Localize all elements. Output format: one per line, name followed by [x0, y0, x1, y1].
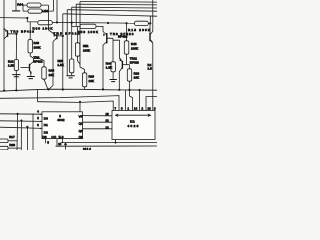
wire x21.4 drop: [20, 121, 22, 150]
svg-text:D3: D3: [44, 130, 48, 134]
resistor R39: [82, 73, 86, 87]
svg-text:R38: R38: [9, 143, 15, 147]
resistor R46: [124, 41, 129, 54]
svg-text:1.5K: 1.5K: [58, 63, 64, 67]
svg-text:100K: 100K: [131, 46, 138, 50]
svg-text:1.5: 1.5: [148, 66, 153, 70]
wire right y97: [146, 97, 157, 111]
wire B1 corner drop: [149, 16, 151, 23]
node R12 bottom: [15, 89, 17, 91]
svg-text:10K: 10K: [89, 79, 95, 83]
svg-text:CO: CO: [51, 135, 56, 139]
wire TR5 collector down: [49, 42, 53, 90]
wire IC1-IC2 q1: [83, 115, 113, 117]
node j62-90: [62, 88, 64, 90]
transistor TR12: [149, 33, 151, 41]
svg-text:Q3: Q3: [79, 129, 83, 133]
svg-text:R17: R17: [9, 135, 15, 139]
wire y142.5: [61, 141, 157, 143]
transistor TR11: [121, 61, 123, 69]
node j126: [125, 22, 127, 24]
wire bus vert x71.7: [71, 7, 73, 59]
resistor R51: [75, 43, 79, 56]
node TR6 collector bottom: [102, 88, 104, 90]
wire bus vert x76: [75, 4, 77, 26]
node rail-bottom junction: [3, 90, 5, 92]
svg-text:R59 100K: R59 100K: [78, 30, 99, 34]
svg-text:13: 13: [106, 118, 110, 122]
arrow line inside: [116, 114, 151, 116]
resistor 1.2M: [28, 9, 42, 13]
node TR9 base: [15, 33, 17, 35]
svg-text:2: 2: [37, 116, 39, 120]
resistor R23: [127, 69, 131, 81]
wire line2: [0, 96, 119, 111]
svg-text:VP: VP: [79, 115, 83, 119]
svg-text:R51: R51: [83, 44, 89, 48]
wire R59 left lead: [72, 23, 80, 27]
svg-text:D0: D0: [44, 116, 48, 120]
svg-text:8: 8: [121, 107, 123, 111]
svg-text:TR5 BF423: TR5 BF423: [54, 31, 80, 35]
IC2 bottom pin: [115, 140, 117, 143]
resistor R44v: [111, 62, 116, 72]
bus line B5: [80, 1, 157, 4]
node R23 bottom: [128, 89, 130, 91]
svg-text:5: 5: [47, 141, 49, 145]
resistor R59: [80, 24, 96, 28]
bus line B4: [76, 3, 157, 6]
capacitor C plate: [12, 10, 20, 12]
svg-text:10: 10: [106, 112, 110, 116]
wire bus vert x67: [66, 10, 68, 76]
wire IC1-IC2 q3: [83, 121, 113, 123]
svg-text:2: 2: [142, 107, 144, 111]
node IC1 vdd to line3: [79, 102, 81, 112]
node j108: [107, 22, 109, 24]
resistor R17: [0, 139, 8, 143]
svg-text:Q1: Q1: [79, 122, 83, 126]
resistor R44: [27, 3, 41, 7]
resistor R50: [70, 59, 74, 73]
wire bus vert x62.8: [62, 14, 64, 90]
wire y120: [0, 120, 42, 123]
capacitor marks on R12 line: [12, 75, 20, 77]
capacitor C top-left stub: [15, 0, 17, 11]
bus line B3: [72, 6, 157, 9]
svg-text:1: 1: [128, 107, 130, 111]
svg-text:10K: 10K: [134, 76, 140, 80]
svg-text:7: 7: [115, 107, 117, 111]
wire IC1-IC2 q2: [83, 128, 113, 130]
svg-text:214 d: 214 d: [83, 147, 91, 150]
ground TR8 emitter: [27, 77, 35, 79]
wire main horizontal W3: [0, 17, 27, 19]
svg-text:Q3: Q3: [79, 135, 83, 139]
resistor R18: [135, 21, 149, 25]
node j150: [149, 22, 151, 24]
svg-text:R46: R46: [131, 42, 137, 46]
svg-text:3: 3: [37, 123, 39, 127]
transistor TR5: [56, 32, 58, 39]
svg-text:4028: 4028: [128, 124, 139, 128]
wire x27.4 drop: [26, 127, 28, 150]
wire y126.5: [0, 127, 42, 128]
transistor TR9: [7, 30, 9, 37]
wire W90 corner down x139: [138, 89, 140, 91]
svg-text:14: 14: [134, 107, 138, 111]
wire TR6 base drop: [112, 38, 114, 62]
svg-text:R43: R43: [34, 41, 40, 45]
arrow mark: [64, 143, 67, 150]
node j57: [56, 21, 58, 23]
svg-text:R60 100K: R60 100K: [33, 27, 53, 31]
wire base drop x16.5: [15, 34, 17, 60]
ground R50: [67, 76, 75, 78]
wire y146: [56, 145, 158, 147]
wire bus vert x80: [79, 2, 81, 66]
wire bottom horizontal rail: [0, 89, 157, 91]
bus line B2: [67, 10, 157, 12]
IC U2 4028 box: [112, 111, 155, 140]
wire left rail: [3, 0, 5, 91]
svg-text:E.0: E.0: [59, 135, 64, 139]
wire x33 drop: [32, 114, 34, 150]
svg-text:TR9 BF423: TR9 BF423: [11, 30, 35, 34]
transistor TR6: [106, 33, 108, 43]
svg-text:D1: D1: [44, 123, 48, 127]
svg-text:12: 12: [106, 126, 110, 130]
wire x125.5 pin drop: [125, 90, 127, 111]
svg-text:D2: D2: [43, 135, 47, 139]
svg-text:3: 3: [154, 107, 156, 111]
resistor R38: [0, 146, 8, 150]
IC U1 4042 box: [42, 112, 83, 139]
resistor R12: [14, 60, 18, 71]
svg-text:1.5K: 1.5K: [106, 65, 112, 69]
transistor TR8: [29, 64, 31, 71]
wire vertical feeding TR5 emitter: [49, 0, 54, 30]
svg-text:1.5K: 1.5K: [8, 64, 14, 68]
svg-text:BF422: BF422: [34, 59, 43, 63]
bus line B1: [63, 14, 157, 16]
svg-text:R44: R44: [17, 3, 23, 7]
wire y113.5: [0, 113, 42, 115]
resistor R40: [42, 67, 46, 79]
resistor R43: [28, 40, 32, 54]
node j27: [26, 17, 28, 19]
svg-text:16: 16: [148, 107, 152, 111]
wire line3: [38, 101, 114, 111]
svg-text:1.2M: 1.2M: [42, 9, 49, 13]
ground R44v: [110, 80, 117, 82]
node j72: [71, 22, 73, 24]
svg-text:100K: 100K: [83, 49, 90, 53]
svg-text:100K: 100K: [34, 46, 41, 50]
node TR11 collector bottom: [118, 89, 120, 91]
wire vertical x57 from top: [56, 0, 58, 22]
IC1 bottom pins: [45, 139, 47, 144]
resistor R60: [38, 21, 53, 25]
svg-text:BF423: BF423: [118, 34, 128, 38]
node R40 bottom: [47, 88, 49, 90]
wire x132.5 pin drop: [130, 90, 133, 111]
svg-text:4042: 4042: [57, 118, 64, 122]
svg-text:BF423: BF423: [130, 60, 139, 64]
svg-text:4: 4: [37, 109, 39, 113]
